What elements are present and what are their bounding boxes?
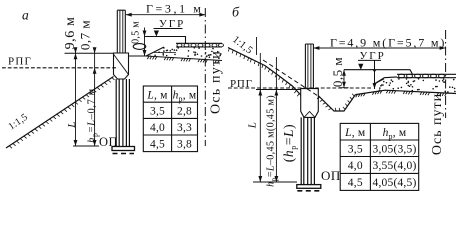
- svg-text:L: L: [66, 121, 78, 129]
- svg-text:Ось пути: Ось пути: [430, 93, 445, 155]
- svg-text:(hр=L): (hр=L): [281, 124, 298, 163]
- svg-text:Ось пути: Ось пути: [208, 50, 223, 114]
- svg-text:hр, м: hр, м: [383, 127, 407, 141]
- svg-text:2,8: 2,8: [177, 105, 192, 117]
- svg-text:hр=L–0,7 м: hр=L–0,7 м: [86, 88, 99, 143]
- svg-text:Г=3,1 м: Г=3,1 м: [146, 2, 204, 16]
- svg-text:РПГ: РПГ: [230, 78, 253, 90]
- svg-text:L: L: [247, 122, 259, 130]
- svg-text:б: б: [232, 6, 240, 21]
- svg-text:3,3: 3,3: [177, 122, 192, 134]
- svg-text:а: а: [22, 8, 29, 23]
- svg-text:L, м: L, м: [146, 89, 168, 101]
- svg-text:0,5 м: 0,5 м: [130, 21, 141, 44]
- svg-text:РПГ: РПГ: [8, 56, 32, 68]
- svg-text:3,5: 3,5: [348, 143, 363, 155]
- svg-text:1:1,5: 1:1,5: [230, 34, 254, 56]
- svg-text:3,8: 3,8: [177, 138, 192, 150]
- svg-text:hр, м: hр, м: [173, 89, 197, 103]
- svg-text:УГР: УГР: [360, 50, 386, 62]
- svg-text:Г=4,9 м(Г=5,7 м): Г=4,9 м(Г=5,7 м): [330, 36, 446, 50]
- svg-text:ОП: ОП: [321, 168, 341, 183]
- svg-text:3,05(3,5): 3,05(3,5): [373, 143, 417, 155]
- svg-text:1:1,5: 1:1,5: [7, 112, 30, 133]
- svg-text:0,5 м: 0,5 м: [330, 57, 345, 87]
- svg-text:4,5: 4,5: [348, 177, 363, 189]
- svg-text:4,0: 4,0: [150, 122, 165, 134]
- svg-text:3,5: 3,5: [150, 105, 165, 117]
- svg-text:4,5: 4,5: [150, 138, 165, 150]
- svg-text:3,55(4,0): 3,55(4,0): [373, 160, 417, 172]
- svg-text:4,0: 4,0: [348, 160, 363, 172]
- svg-text:ОП: ОП: [99, 135, 118, 149]
- svg-text:hр=L–0,45 м(0,45 м): hр=L–0,45 м(0,45 м): [265, 95, 278, 187]
- svg-text:УГР: УГР: [159, 18, 185, 30]
- svg-text:L, м: L, м: [344, 127, 366, 139]
- svg-text:4,05(4,5): 4,05(4,5): [373, 177, 417, 189]
- svg-text:9,6 м: 9,6 м: [63, 17, 78, 50]
- svg-text:0,7 м: 0,7 м: [77, 20, 92, 50]
